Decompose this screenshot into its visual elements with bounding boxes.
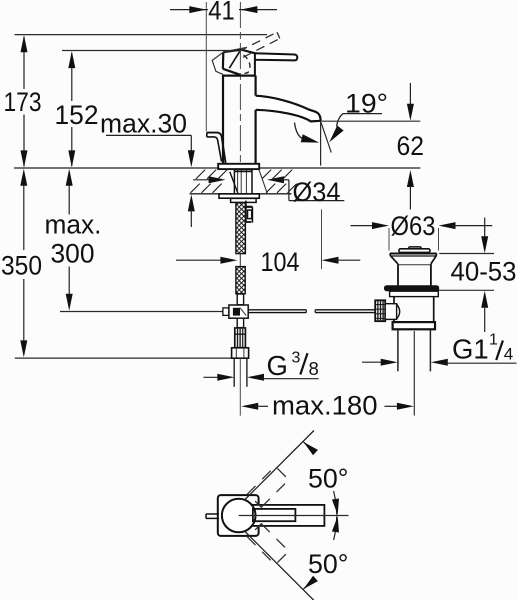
reference line (152 level) [62, 50, 239, 52]
svg-text:1: 1 [489, 332, 498, 349]
svg-text:G1: G1 [452, 334, 489, 365]
svg-text:62: 62 [397, 131, 425, 161]
drain centerline [413, 331, 415, 416]
dimension G 1 1/4 [362, 361, 385, 363]
dimension max.300 [68, 172, 70, 215]
lower body [393, 297, 395, 305]
top view: base square [218, 495, 259, 536]
pop-up rod guide bracket [245, 201, 247, 223]
countertop top surface line [14, 167, 420, 169]
pop-up waste: plug cap [409, 247, 421, 249]
hose end stub [237, 294, 243, 305]
hole chamfer walls [230, 172, 238, 194]
mounting nut [231, 198, 257, 202]
40-53 upper reference line (flange underside) [439, 253, 494, 255]
dimension 173 [23, 37, 25, 90]
vertical plumb line below spout [320, 122, 322, 166]
coupling lower stub [237, 318, 243, 327]
handle lever [255, 53, 297, 60]
curved arc arrow pointing at plumb line [295, 123, 303, 139]
svg-text:Ø63: Ø63 [391, 211, 436, 241]
svg-text:Ø34: Ø34 [293, 177, 341, 207]
pull-rod knob at rear of faucet [207, 133, 226, 164]
top view: rear pull-rod stub [206, 513, 219, 515]
svg-text:8: 8 [309, 358, 319, 379]
countertop hatching [196, 170, 205, 179]
rod adjuster knurled knob at drain [375, 300, 385, 321]
rubber gasket (black) [384, 285, 439, 291]
dimension 350 [23, 172, 25, 250]
G3/8 supply pipe [233, 358, 235, 386]
spout [256, 96, 321, 122]
stream line at 19 deg [321, 122, 332, 153]
svg-text:350: 350 [1, 251, 42, 281]
flexible supply hose (braided) upper segment [236, 203, 246, 254]
svg-text:max.180: max.180 [272, 390, 378, 420]
50 deg dimension arc upper [304, 442, 314, 453]
50 deg construction diagonal upper [245, 431, 314, 500]
bottom ring [393, 322, 435, 329]
svg-text:G: G [267, 350, 288, 381]
G3/8 hex nut [232, 348, 249, 358]
pop-up waste: upper body [397, 264, 399, 286]
phantom knob outline [212, 52, 223, 74]
leader arrow from shelf to stream line [337, 114, 343, 127]
dimension dia 34 (hole) [193, 179, 211, 181]
50 deg dimension arc lower [304, 579, 314, 590]
phantom lever position lower (dashed) [248, 524, 289, 565]
flexible supply hose (braided) lower segment [236, 267, 245, 294]
countertop bottom surface line [190, 193, 292, 195]
dimension 41 [205, 2, 207, 132]
svg-text:4: 4 [504, 345, 513, 364]
svg-text:300: 300 [51, 239, 95, 269]
top reference line (173 level) [15, 34, 268, 36]
faucet base plate [218, 164, 259, 169]
svg-text:3: 3 [292, 350, 301, 367]
pop-up waste: flange [390, 253, 437, 255]
svg-text:41: 41 [208, 0, 235, 26]
horizontal pop-up rod [248, 309, 306, 311]
phantom lever position upper (dashed) [248, 466, 289, 507]
top view: body circle [222, 499, 256, 533]
supply connection level reference line (max.300) [60, 311, 223, 313]
svg-text:152: 152 [55, 100, 99, 130]
tailpipe G1 1/4 [397, 330, 399, 372]
dimension 152 [71, 53, 73, 101]
spout outlet height line / 19 deg shelf [322, 120, 420, 122]
faucet body [222, 76, 224, 164]
dimension G 3/8 [203, 376, 219, 378]
threaded shank in hole [233, 169, 235, 193]
svg-text:173: 173 [4, 87, 42, 117]
svg-text:40-53: 40-53 [451, 256, 517, 286]
top view: horizontal centerline [239, 515, 349, 517]
50 deg construction diagonal lower [245, 532, 314, 600]
mounting washer [219, 194, 259, 198]
G3/8 knurled connector [235, 328, 246, 348]
19 deg text shelf [343, 113, 382, 115]
dimension 104 [176, 259, 222, 261]
phantom raised handle (dashed) [239, 32, 277, 51]
faucet centerline below nut [239, 358, 241, 415]
gasket holder band [390, 291, 439, 296]
dimension max.180 [241, 403, 258, 410]
top view: lever inner outline [253, 509, 296, 521]
dimension dia 63 [351, 225, 374, 227]
40-53 lower reference line (gasket underside) [432, 289, 494, 291]
svg-text:50°: 50° [308, 549, 349, 579]
hose connector line [239, 254, 241, 267]
handle knob [223, 50, 255, 54]
svg-text:max.: max. [45, 210, 102, 240]
svg-text:max.30: max.30 [100, 108, 187, 138]
svg-text:50°: 50° [308, 463, 349, 493]
svg-text:104: 104 [261, 247, 300, 277]
350 bottom reference line [15, 357, 232, 359]
dimension 62 [409, 83, 411, 105]
dimension 40-53 [484, 218, 486, 238]
top view: lever outer outline [249, 505, 324, 526]
tee / rod coupling [223, 308, 229, 316]
